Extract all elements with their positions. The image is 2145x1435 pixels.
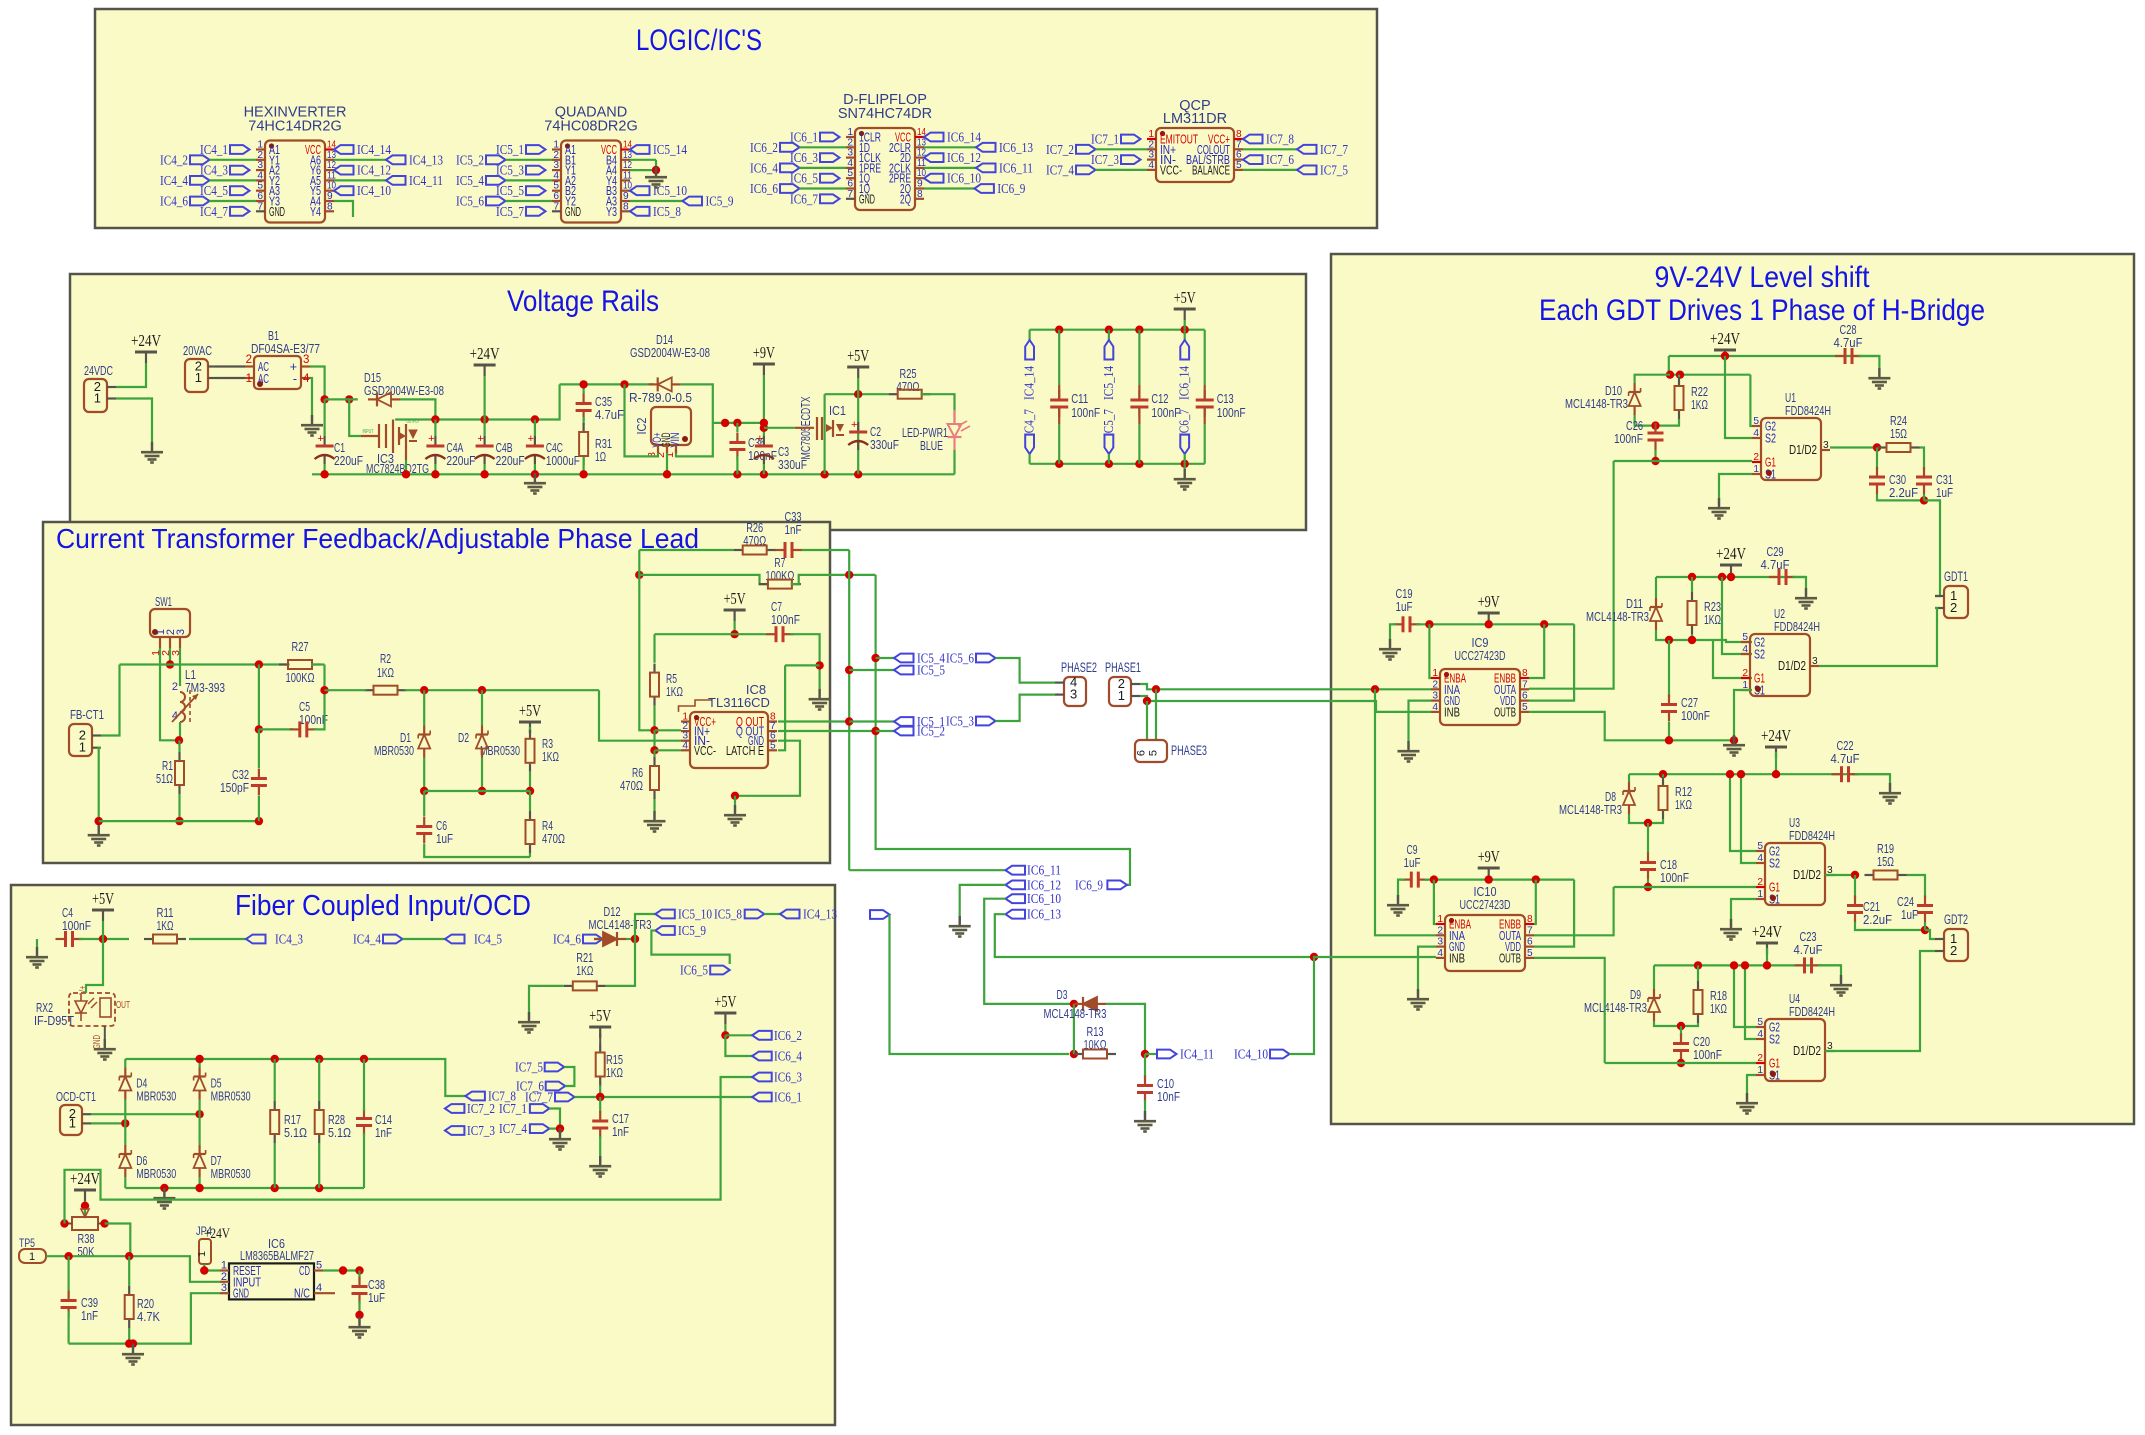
svg-text:OUT: OUT [116, 999, 130, 1011]
svg-text:IC6_5: IC6_5 [680, 964, 708, 979]
svg-text:IC6_10: IC6_10 [1027, 892, 1061, 907]
svg-text:2: 2 [172, 681, 178, 693]
svg-text:6: 6 [1522, 691, 1528, 702]
svg-text:100nF: 100nF [1217, 405, 1246, 420]
svg-text:IC6_9: IC6_9 [997, 182, 1025, 197]
svg-text:5: 5 [1148, 750, 1160, 756]
svg-text:8: 8 [1522, 668, 1528, 679]
svg-text:1: 1 [246, 373, 252, 385]
svg-text:UCC27423D: UCC27423D [1455, 648, 1506, 663]
svg-text:+24V: +24V [131, 331, 162, 350]
svg-text:100nF: 100nF [62, 918, 91, 933]
svg-text:IC6_10: IC6_10 [947, 172, 981, 187]
svg-text:IC6_3: IC6_3 [774, 1071, 802, 1086]
svg-text:+: + [477, 433, 483, 445]
svg-text:Y3: Y3 [606, 205, 617, 219]
svg-text:1: 1 [195, 370, 202, 385]
svg-text:LATCH E: LATCH E [726, 744, 764, 758]
svg-text:+: + [528, 433, 534, 445]
svg-text:1: 1 [1118, 688, 1125, 703]
svg-text:4: 4 [682, 740, 688, 751]
svg-text:IC7_3: IC7_3 [1091, 153, 1119, 168]
svg-text:R-789.0-0.5: R-789.0-0.5 [629, 390, 692, 405]
svg-text:3: 3 [1437, 937, 1443, 948]
svg-text:+9V: +9V [1478, 592, 1501, 611]
svg-text:2: 2 [221, 1271, 227, 1283]
svg-text:1KΩ: 1KΩ [1704, 612, 1721, 627]
svg-text:20VAC: 20VAC [183, 343, 212, 358]
svg-text:IC5_14: IC5_14 [653, 143, 687, 158]
svg-text:24VDC: 24VDC [84, 363, 113, 378]
svg-text:5: 5 [316, 1260, 322, 1272]
svg-text:IC5_5: IC5_5 [917, 664, 945, 679]
svg-text:AC: AC [258, 372, 269, 386]
svg-text:Voltage Rails: Voltage Rails [507, 285, 659, 318]
svg-text:7M3-393: 7M3-393 [185, 680, 225, 695]
svg-text:74HC08DR2G: 74HC08DR2G [544, 119, 638, 135]
svg-text:-: - [293, 372, 297, 386]
svg-text:1KΩ: 1KΩ [666, 684, 683, 699]
svg-text:INB: INB [1444, 705, 1460, 719]
svg-text:IF-D95T: IF-D95T [34, 1013, 74, 1028]
svg-text:1: 1 [1432, 668, 1438, 679]
svg-text:GND: GND [565, 205, 581, 219]
svg-text:5: 5 [1742, 632, 1748, 643]
svg-text:4: 4 [1432, 702, 1438, 713]
svg-text:100nF: 100nF [1681, 708, 1710, 723]
svg-text:+9V: +9V [1478, 847, 1501, 866]
svg-text:330uF: 330uF [870, 437, 899, 452]
svg-text:GDT2: GDT2 [1944, 912, 1968, 927]
svg-text:IC5_9: IC5_9 [678, 924, 706, 939]
svg-text:MCL4148-TR3: MCL4148-TR3 [1565, 396, 1628, 411]
svg-text:5: 5 [1522, 702, 1528, 713]
svg-text:470Ω: 470Ω [620, 778, 643, 793]
svg-text:+5V: +5V [589, 1006, 612, 1025]
svg-text:6: 6 [1527, 937, 1533, 948]
svg-text:3: 3 [1812, 656, 1818, 667]
svg-text:470Ω: 470Ω [897, 379, 920, 394]
svg-text:+24V: +24V [1752, 922, 1783, 941]
svg-text:7: 7 [1527, 925, 1533, 936]
svg-text:2Q: 2Q [900, 192, 911, 206]
svg-text:C11: C11 [1071, 391, 1088, 406]
svg-text:IC4_2: IC4_2 [160, 153, 188, 168]
svg-text:+: + [757, 433, 763, 445]
svg-text:MBR0530: MBR0530 [136, 1089, 176, 1104]
svg-text:7: 7 [553, 201, 559, 212]
svg-text:100nF: 100nF [771, 612, 800, 627]
svg-text:IC7_5: IC7_5 [1320, 163, 1348, 178]
svg-text:R27: R27 [292, 639, 309, 654]
svg-text:1000uF: 1000uF [546, 453, 580, 468]
svg-text:1: 1 [664, 452, 676, 458]
svg-text:IC5_6: IC5_6 [456, 195, 484, 210]
svg-text:IC7_3: IC7_3 [467, 1124, 495, 1139]
svg-text:IC4_13: IC4_13 [803, 908, 837, 923]
svg-text:IC7_6: IC7_6 [1266, 153, 1294, 168]
svg-text:15Ω: 15Ω [1877, 854, 1894, 869]
svg-text:CD: CD [299, 1264, 310, 1278]
svg-text:100nF: 100nF [1660, 870, 1689, 885]
svg-text:IC5_6: IC5_6 [946, 652, 974, 667]
svg-text:D3: D3 [1057, 987, 1068, 1002]
svg-text:INB: INB [1449, 951, 1465, 965]
svg-text:IC5_3: IC5_3 [946, 715, 974, 730]
svg-text:1KΩ: 1KΩ [606, 1065, 623, 1080]
svg-text:4: 4 [303, 373, 310, 385]
svg-text:2.2uF: 2.2uF [1863, 912, 1892, 927]
svg-text:IC4_4: IC4_4 [160, 174, 188, 189]
svg-text:4.7uF: 4.7uF [1794, 942, 1823, 957]
svg-text:4: 4 [1757, 1029, 1763, 1040]
svg-text:C12: C12 [1151, 391, 1168, 406]
svg-text:OUTB: OUTB [1494, 705, 1516, 719]
svg-text:Each GDT Drives 1 Phase of H-B: Each GDT Drives 1 Phase of H-Bridge [1539, 294, 1985, 327]
svg-text:D1/D2: D1/D2 [1793, 868, 1821, 882]
svg-text:IC4_6: IC4_6 [553, 933, 581, 948]
svg-text:IC6_9: IC6_9 [1075, 878, 1103, 893]
svg-text:MCL4148-TR3: MCL4148-TR3 [1584, 1000, 1647, 1015]
svg-text:IC6_6: IC6_6 [750, 182, 778, 197]
svg-text:+5V: +5V [714, 992, 737, 1011]
svg-text:IC7_1: IC7_1 [1091, 133, 1119, 148]
svg-text:IC4_10: IC4_10 [357, 184, 391, 199]
svg-text:1uF: 1uF [1404, 855, 1421, 870]
svg-text:100KΩ: 100KΩ [765, 568, 794, 583]
svg-text:100nF: 100nF [1071, 405, 1100, 420]
svg-text:6: 6 [1136, 750, 1148, 756]
svg-text:IC2: IC2 [634, 418, 649, 435]
svg-text:OUTB: OUTB [1499, 951, 1521, 965]
svg-text:IC4_3: IC4_3 [275, 933, 303, 948]
svg-text:1nF: 1nF [612, 1124, 629, 1139]
svg-text:4: 4 [1757, 853, 1763, 864]
svg-text:SW1: SW1 [155, 594, 172, 609]
svg-text:1uF: 1uF [436, 831, 453, 846]
svg-text:V+: V+ [78, 985, 89, 994]
svg-text:LM8365BALMF27: LM8365BALMF27 [240, 1248, 314, 1263]
svg-text:1uF: 1uF [368, 1290, 385, 1305]
svg-text:MBR0530: MBR0530 [211, 1166, 251, 1181]
svg-text:100KΩ: 100KΩ [286, 670, 315, 685]
svg-text:D2: D2 [458, 730, 469, 745]
svg-text:IC6_4: IC6_4 [774, 1050, 802, 1065]
svg-text:TP5: TP5 [19, 1236, 35, 1250]
svg-text:FDD8424H: FDD8424H [1774, 619, 1820, 634]
svg-text:IC5_7: IC5_7 [1102, 409, 1117, 437]
svg-text:+24V: +24V [70, 1169, 101, 1188]
svg-text:1nF: 1nF [375, 1125, 392, 1140]
svg-text:+24V: +24V [1710, 329, 1741, 348]
svg-text:IC4_7: IC4_7 [1023, 409, 1038, 437]
svg-text:7: 7 [257, 201, 263, 212]
svg-text:VCC-: VCC- [1160, 163, 1182, 177]
svg-text:IC7_1: IC7_1 [499, 1102, 527, 1117]
svg-text:+: + [851, 419, 857, 431]
svg-text:1: 1 [1437, 914, 1443, 925]
svg-text:TL3116CD: TL3116CD [708, 695, 770, 710]
svg-text:1nF: 1nF [785, 522, 802, 537]
svg-text:IC7_4: IC7_4 [1046, 163, 1074, 178]
svg-text:74HC14DR2G: 74HC14DR2G [248, 119, 342, 135]
svg-text:+5V: +5V [1174, 288, 1197, 307]
svg-text:8: 8 [623, 201, 629, 212]
svg-text:3: 3 [175, 629, 187, 635]
svg-text:Y4: Y4 [310, 205, 321, 219]
svg-text:1: 1 [69, 1115, 76, 1130]
svg-text:IC5_9: IC5_9 [706, 195, 734, 210]
svg-text:IC4_14: IC4_14 [357, 143, 391, 158]
svg-text:1: 1 [196, 1251, 208, 1257]
svg-text:+5V: +5V [92, 889, 115, 908]
svg-text:1KΩ: 1KΩ [542, 749, 559, 764]
svg-text:IC4_12: IC4_12 [357, 164, 391, 179]
svg-text:IC4_14: IC4_14 [1023, 366, 1038, 400]
svg-text:OUTPUT: OUTPUT [407, 419, 420, 425]
svg-text:IC1: IC1 [829, 403, 846, 418]
svg-text:100nF: 100nF [1151, 405, 1180, 420]
svg-text:+5V: +5V [847, 346, 870, 365]
svg-text:FDD8424H: FDD8424H [1785, 403, 1831, 418]
svg-text:100nF: 100nF [1614, 431, 1643, 446]
svg-text:+9V: +9V [753, 343, 776, 362]
svg-text:3: 3 [1432, 691, 1438, 702]
svg-text:IC4_7: IC4_7 [200, 205, 228, 220]
svg-text:4: 4 [1753, 428, 1759, 439]
svg-text:+: + [428, 433, 434, 445]
svg-text:2: 2 [1437, 925, 1443, 936]
svg-text:1: 1 [1757, 889, 1763, 900]
svg-text:3: 3 [1070, 687, 1077, 702]
svg-text:OCD-CT1: OCD-CT1 [56, 1089, 96, 1104]
svg-text:IC7_2: IC7_2 [467, 1102, 495, 1117]
svg-text:IC7_4: IC7_4 [499, 1122, 527, 1137]
svg-text:IC6_7: IC6_7 [790, 192, 818, 207]
svg-text:D1/D2: D1/D2 [1778, 659, 1806, 673]
svg-text:5: 5 [1527, 948, 1533, 959]
svg-text:5: 5 [1757, 1017, 1763, 1028]
svg-text:MBR0530: MBR0530 [211, 1089, 251, 1104]
svg-text:IC4_6: IC4_6 [160, 195, 188, 210]
svg-text:220uF: 220uF [334, 453, 363, 468]
svg-text:S2: S2 [1754, 648, 1765, 662]
svg-text:IC5_7: IC5_7 [496, 205, 524, 220]
svg-text:DF04SA-E3/77: DF04SA-E3/77 [251, 341, 320, 356]
svg-text:IC5_2: IC5_2 [456, 153, 484, 168]
svg-text:2: 2 [1432, 679, 1438, 690]
svg-text:C13: C13 [1217, 391, 1234, 406]
svg-text:FDD8424H: FDD8424H [1789, 1004, 1835, 1019]
svg-text:IC7_7: IC7_7 [1320, 143, 1348, 158]
svg-text:GSD2004W-E3-08: GSD2004W-E3-08 [630, 345, 710, 360]
svg-text:Current Transformer Feedback/A: Current Transformer Feedback/Adjustable … [56, 523, 699, 554]
svg-text:2.2uF: 2.2uF [1889, 485, 1918, 500]
svg-text:220uF: 220uF [446, 453, 475, 468]
svg-text:470Ω: 470Ω [542, 831, 565, 846]
svg-text:PHASE3: PHASE3 [1171, 743, 1207, 758]
svg-text:2: 2 [1757, 1053, 1763, 1064]
svg-text:IC6_12: IC6_12 [947, 151, 981, 166]
svg-text:+24V: +24V [1716, 544, 1747, 563]
svg-text:1KΩ: 1KΩ [1691, 397, 1708, 412]
svg-text:IC6_11: IC6_11 [999, 161, 1033, 176]
svg-text:IC6_14: IC6_14 [1178, 366, 1193, 400]
svg-text:IC6_1: IC6_1 [774, 1091, 802, 1106]
svg-text:IC6_12: IC6_12 [1027, 878, 1061, 893]
svg-text:BALANCE: BALANCE [1192, 163, 1230, 177]
svg-text:+: + [317, 433, 323, 445]
svg-text:FDD8424H: FDD8424H [1789, 828, 1835, 843]
svg-text:IC4_13: IC4_13 [409, 153, 443, 168]
svg-text:SN74HC74DR: SN74HC74DR [838, 106, 932, 122]
svg-text:MCL4148-TR3: MCL4148-TR3 [1586, 609, 1649, 624]
svg-text:VCC-: VCC- [694, 744, 716, 758]
svg-text:150pF: 150pF [220, 780, 249, 795]
svg-text:R2: R2 [380, 651, 391, 666]
svg-text:3: 3 [1823, 440, 1829, 451]
svg-text:100nF: 100nF [1693, 1047, 1722, 1062]
svg-text:IC6_2: IC6_2 [774, 1029, 802, 1044]
svg-text:4: 4 [316, 1282, 322, 1294]
svg-text:1uF: 1uF [1396, 599, 1413, 614]
svg-text:MCL4148-TR3: MCL4148-TR3 [1559, 802, 1622, 817]
svg-text:1KΩ: 1KΩ [576, 963, 593, 978]
svg-text:5: 5 [1757, 841, 1763, 852]
svg-text:4.7uF: 4.7uF [1761, 557, 1790, 572]
svg-text:N/C: N/C [294, 1287, 310, 1301]
svg-text:IC7_2: IC7_2 [1046, 143, 1074, 158]
svg-text:IC5_14: IC5_14 [1102, 366, 1117, 400]
svg-text:5: 5 [1236, 160, 1242, 171]
svg-text:3: 3 [221, 1282, 227, 1294]
svg-text:1uF: 1uF [1936, 485, 1953, 500]
svg-text:IC6_14: IC6_14 [947, 131, 981, 146]
svg-text:1: 1 [29, 1251, 35, 1263]
svg-text:8: 8 [1527, 914, 1533, 925]
svg-text:+5V: +5V [724, 589, 747, 608]
svg-text:+24V: +24V [470, 344, 501, 363]
svg-text:7: 7 [847, 189, 853, 200]
svg-text:Fiber Coupled Input/OCD: Fiber Coupled Input/OCD [235, 890, 531, 922]
svg-text:9V-24V Level shift: 9V-24V Level shift [1655, 261, 1871, 294]
svg-text:IC5_8: IC5_8 [714, 908, 742, 923]
svg-text:IC4_4: IC4_4 [353, 933, 381, 948]
svg-text:1KΩ: 1KΩ [377, 665, 394, 680]
svg-text:LM311DR: LM311DR [1163, 111, 1227, 127]
svg-text:4: 4 [1742, 644, 1748, 655]
svg-text:1: 1 [79, 740, 86, 755]
svg-text:GND: GND [859, 192, 875, 206]
svg-text:IC7_5: IC7_5 [515, 1061, 543, 1076]
svg-text:1: 1 [221, 1260, 227, 1272]
svg-text:15Ω: 15Ω [1890, 426, 1907, 441]
svg-text:MCL4148-TR3: MCL4148-TR3 [1044, 1006, 1107, 1021]
svg-text:4.7uF: 4.7uF [1834, 335, 1863, 350]
svg-text:1uF: 1uF [1901, 907, 1918, 922]
svg-text:IC4_11: IC4_11 [1180, 1048, 1214, 1063]
svg-text:IC6_11: IC6_11 [1027, 864, 1061, 879]
svg-text:S2: S2 [1769, 1033, 1780, 1047]
svg-text:2: 2 [1950, 943, 1957, 958]
svg-text:2: 2 [1742, 668, 1748, 679]
svg-text:8: 8 [917, 189, 923, 200]
svg-text:2: 2 [246, 354, 252, 366]
svg-text:D1/D2: D1/D2 [1789, 443, 1817, 457]
svg-text:5: 5 [770, 740, 776, 751]
svg-text:3: 3 [303, 354, 309, 366]
svg-text:IC6_2: IC6_2 [750, 141, 778, 156]
svg-text:BLUE: BLUE [920, 438, 943, 453]
svg-text:5.1Ω: 5.1Ω [284, 1125, 307, 1140]
svg-text:1KΩ: 1KΩ [157, 918, 174, 933]
svg-text:1KΩ: 1KΩ [1710, 1001, 1727, 1016]
svg-text:1: 1 [1753, 464, 1759, 475]
svg-text:2: 2 [1950, 600, 1957, 615]
svg-text:MBR0530: MBR0530 [374, 743, 414, 758]
svg-text:GND: GND [269, 205, 285, 219]
svg-text:5.1Ω: 5.1Ω [328, 1125, 351, 1140]
svg-text:4: 4 [1148, 160, 1154, 171]
svg-text:PHASE1: PHASE1 [1105, 660, 1141, 675]
svg-text:1Ω: 1Ω [595, 449, 606, 464]
svg-text:INPUT: INPUT [363, 429, 374, 435]
svg-text:10nF: 10nF [1157, 1089, 1180, 1104]
svg-text:+24V: +24V [1761, 726, 1792, 745]
svg-text:IC4_5: IC4_5 [474, 933, 502, 948]
svg-text:UCC27423D: UCC27423D [1460, 897, 1511, 912]
svg-text:IC4_10: IC4_10 [1234, 1048, 1268, 1063]
svg-text:FB-CT1: FB-CT1 [70, 707, 104, 722]
svg-text:LOGIC/IC'S: LOGIC/IC'S [636, 24, 762, 57]
svg-text:S2: S2 [1769, 857, 1780, 871]
svg-text:GND: GND [91, 1035, 103, 1049]
svg-text:2: 2 [1753, 452, 1759, 463]
svg-text:IC6_13: IC6_13 [1027, 908, 1061, 923]
svg-text:IC5_8: IC5_8 [653, 205, 681, 220]
svg-text:IC6_13: IC6_13 [999, 141, 1033, 156]
svg-text:7: 7 [1522, 679, 1528, 690]
svg-text:IC4_11: IC4_11 [409, 174, 443, 189]
svg-text:1: 1 [1757, 1065, 1763, 1076]
svg-text:IC7_8: IC7_8 [1266, 133, 1294, 148]
svg-text:5: 5 [1753, 416, 1759, 427]
svg-text:1: 1 [94, 391, 101, 406]
svg-text:MBR0530: MBR0530 [136, 1166, 176, 1181]
svg-text:8: 8 [327, 201, 333, 212]
svg-text:220uF: 220uF [496, 453, 525, 468]
svg-text:4: 4 [1437, 948, 1443, 959]
svg-text:S2: S2 [1765, 432, 1776, 446]
svg-text:1KΩ: 1KΩ [1675, 797, 1692, 812]
svg-text:PHASE2: PHASE2 [1061, 660, 1097, 675]
svg-text:IC5_10: IC5_10 [653, 184, 687, 199]
svg-text:IC5_4: IC5_4 [456, 174, 484, 189]
svg-text:GDT1: GDT1 [1944, 569, 1968, 584]
svg-text:2: 2 [1757, 877, 1763, 888]
svg-text:1nF: 1nF [81, 1308, 98, 1323]
svg-text:GND: GND [233, 1287, 249, 1301]
svg-text:IC6_4: IC6_4 [750, 161, 778, 176]
svg-text:IC5_10: IC5_10 [678, 908, 712, 923]
svg-text:D1/D2: D1/D2 [1793, 1044, 1821, 1058]
svg-text:4.7uF: 4.7uF [595, 407, 624, 422]
svg-text:+5V: +5V [519, 701, 542, 720]
svg-text:4.7uF: 4.7uF [1831, 751, 1860, 766]
svg-text:IC5_2: IC5_2 [917, 725, 945, 740]
svg-text:4.7K: 4.7K [137, 1309, 160, 1324]
svg-text:51Ω: 51Ω [156, 771, 173, 786]
